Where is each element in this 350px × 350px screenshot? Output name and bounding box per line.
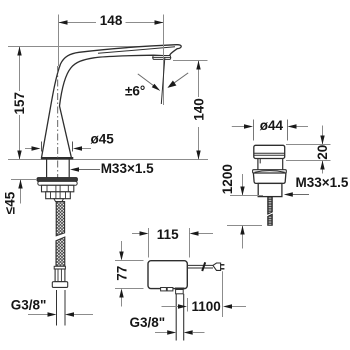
dim 157 arrowheads: [17, 47, 21, 56]
stem lines: [55, 185, 57, 198]
mounting nut: [42, 185, 74, 192]
svg-text:115: 115: [157, 227, 179, 242]
hose collar wedge: [54, 199, 64, 202]
svg-text:G3/8": G3/8": [11, 298, 47, 313]
svg-text:M33×1.5: M33×1.5: [296, 175, 349, 190]
dim 115 ext left: [148, 228, 150, 258]
lower nut: [46, 192, 71, 199]
dim 157 extension line top: [8, 46, 150, 48]
svg-text:140: 140: [192, 98, 207, 121]
svg-text:157: 157: [12, 92, 27, 115]
control box: [148, 261, 187, 289]
dim 77 ext top: [115, 260, 144, 262]
dim 77 arrow top: [121, 241, 123, 252]
plug prongs: [221, 264, 225, 266]
washer 2: [38, 181, 77, 185]
valve flange: [253, 170, 287, 173]
svg-text:ø45: ø45: [91, 132, 115, 147]
aerator: [153, 56, 171, 58]
dim ≤45 arrow: [20, 180, 22, 204]
supply pipe below box: [175, 294, 177, 341]
washer (dark): [37, 178, 77, 182]
svg-text:1200: 1200: [220, 164, 235, 194]
dim ø45 right arrow: [82, 148, 91, 150]
dim 140 extension line top: [173, 60, 208, 62]
neck below cone: [46, 159, 48, 177]
dim ±6° left leader: [138, 74, 156, 88]
dim 1200 ext top: [230, 195, 263, 197]
dim 77 arrow bottom: [121, 298, 123, 307]
dim 20 line+arrows: [322, 126, 324, 145]
dim 1100 right arrow: [232, 306, 246, 308]
svg-text:≤45: ≤45: [3, 191, 18, 214]
pipe below hose: [56, 290, 58, 326]
dim G3/8 middle arrows: [155, 332, 168, 334]
svg-text:148: 148: [100, 13, 123, 28]
svg-text:20: 20: [315, 145, 330, 160]
centerline (dash-dot): [57, 66, 59, 203]
dim ø45 tick right: [72, 142, 74, 152]
dim 115 ext right: [189, 228, 191, 258]
svg-text:77: 77: [114, 266, 129, 281]
dim 1200 line top: [242, 174, 244, 196]
dim 20 extension lines: [286, 144, 331, 146]
svg-text:G3/8": G3/8": [130, 315, 166, 330]
label M33×1.5 left arrow: [79, 169, 100, 171]
dim ø44 tick left: [253, 120, 255, 141]
braided hose upper section: [56, 202, 64, 236]
swivel axis line: [161, 57, 165, 104]
valve cap: [254, 145, 285, 158]
dim ø44 left arrow: [232, 126, 244, 128]
valve neck: [257, 159, 259, 170]
deck line: [8, 159, 208, 161]
svg-text:M33×1.5: M33×1.5: [101, 161, 154, 176]
power cable: [188, 264, 214, 266]
dim ø44 right arrow: [297, 126, 309, 128]
valve rod lower: [268, 214, 273, 225]
dim 157 line: [19, 47, 21, 92]
dim 77 ext bottom: [115, 288, 144, 290]
dim 148 extension line right: [163, 15, 165, 106]
dim 148 arrowheads: [59, 20, 68, 24]
valve rod upper: [268, 197, 273, 214]
dim ø45 left arrow: [25, 148, 32, 150]
dim ø45 tick left: [41, 142, 43, 152]
hose shank: [55, 269, 65, 282]
braided hose lower section: [56, 237, 65, 266]
valve lower body: [258, 183, 282, 196]
box bottom connector left: [161, 288, 167, 291]
faucet inner top line: [98, 47, 175, 54]
dim ø44 tick right: [287, 120, 289, 141]
cable break slash: [202, 262, 205, 271]
dim 148 extension line left: [58, 15, 60, 67]
dim 1200 ext bottom: [227, 225, 262, 227]
dim 115 right arrow: [199, 233, 214, 235]
hose hex nut: [52, 282, 67, 288]
valve upper body: [253, 173, 286, 183]
label M33×1.5 right arrow: [291, 194, 309, 196]
dim 140 arrowheads: [196, 61, 200, 70]
dim 148 line: [59, 22, 97, 24]
hose collar band: [54, 266, 65, 269]
dim G3/8 left arrows: [28, 314, 48, 316]
dim 1200 line bottom: [242, 226, 244, 249]
dim 115 left arrow: [132, 233, 140, 235]
faucet base bottom edge: [41, 157, 73, 159]
faucet body outline: [41, 45, 181, 159]
dim 140 line: [198, 61, 200, 98]
svg-text:±6°: ±6°: [125, 84, 145, 99]
dim ≤45 extension line: [11, 179, 37, 181]
svg-text:ø44: ø44: [260, 118, 284, 133]
box bottom fitting right: [175, 288, 184, 290]
plug: [213, 263, 221, 270]
dim 1100 ext right: [222, 271, 224, 317]
dim ±6° right leader: [172, 73, 189, 85]
dim 1100 left arrow: [162, 306, 179, 308]
svg-text:1100: 1100: [192, 299, 221, 314]
dim 1100 ext left: [187, 298, 189, 312]
